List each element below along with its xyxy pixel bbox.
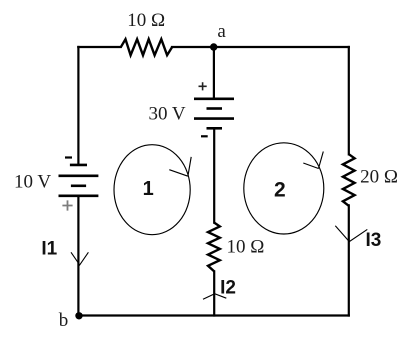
- svg-text:a: a: [217, 21, 226, 42]
- svg-text:b: b: [59, 310, 69, 331]
- svg-text:20 Ω: 20 Ω: [360, 167, 398, 188]
- svg-text:1: 1: [143, 178, 154, 200]
- svg-text:30 V: 30 V: [149, 103, 186, 124]
- svg-text:10 Ω: 10 Ω: [127, 10, 165, 31]
- svg-text:10 V: 10 V: [14, 171, 51, 192]
- svg-text:I2: I2: [220, 277, 236, 298]
- svg-text:I1: I1: [41, 239, 57, 260]
- svg-text:I3: I3: [366, 230, 382, 251]
- svg-text:10 Ω: 10 Ω: [227, 237, 265, 258]
- svg-text:2: 2: [274, 178, 286, 201]
